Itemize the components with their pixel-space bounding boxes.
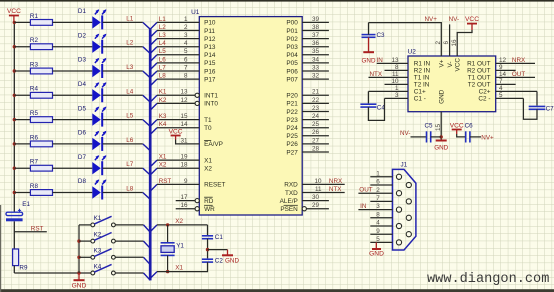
wire pin 6 V- stub [449, 24, 451, 56]
svg-text:K1: K1 [159, 89, 167, 96]
junction VCC rail row 2 [13, 45, 16, 48]
svg-text:L2: L2 [126, 40, 134, 47]
wire K3 to bus [115, 256, 143, 258]
wire/pin 10 (RXD) right of U1 [302, 183, 345, 185]
svg-text:D7: D7 [78, 154, 87, 161]
svg-text:K4: K4 [94, 263, 102, 270]
svg-text:3: 3 [184, 32, 188, 39]
svg-text:T1 IN: T1 IN [414, 75, 430, 82]
bus entry L7 [143, 168, 150, 175]
wire/pin 22 (P21) right of U1 [302, 102, 329, 104]
svg-text:15: 15 [435, 123, 442, 131]
svg-text:13: 13 [180, 89, 188, 96]
wire/pin 38 (P01) right of U1 [302, 30, 329, 32]
svg-text:P04: P04 [286, 52, 298, 59]
wire/pin 2 (L2) left of U1 [150, 31, 199, 38]
bus entry L4 [143, 95, 150, 102]
resistor R4 [30, 86, 53, 99]
wire VCC rail to R6 [14, 143, 30, 145]
electrolytic capacitor E1 [6, 201, 30, 221]
junction bottom rail / switch rail [77, 271, 80, 274]
svg-text:P01: P01 [286, 28, 298, 35]
wire K2 to bus [115, 240, 143, 242]
wire/pin 8 (L8) left of U1 [150, 79, 199, 86]
wire/pin 1 (C1+) left of U2 [368, 90, 408, 92]
switch K4 [91, 263, 115, 275]
power symbol GND (U2) [434, 141, 448, 152]
power symbol VCC (top-left) [7, 8, 21, 22]
svg-text:6: 6 [184, 56, 188, 63]
junction VCC rail row 3 [13, 69, 16, 72]
svg-text:NV+: NV+ [425, 16, 438, 23]
wire/pin 3 (C1 -) left of U2 [385, 97, 409, 99]
svg-text:36: 36 [312, 40, 320, 47]
junction switch rail K2 [77, 239, 80, 242]
svg-text:32: 32 [312, 73, 320, 80]
svg-text:33: 33 [312, 64, 320, 71]
svg-text:18: 18 [180, 162, 188, 169]
svg-text:12: 12 [499, 57, 507, 64]
wire D4 cathode to bus [103, 94, 143, 96]
wire to GND (crystal) [208, 249, 228, 251]
wire D8 cathode to bus [103, 192, 143, 194]
LED D8 [78, 178, 107, 199]
bus (vertical trunk) [149, 29, 152, 280]
mcu U1 body [191, 9, 302, 215]
svg-text:D2: D2 [78, 32, 87, 39]
svg-text:L1: L1 [126, 15, 134, 22]
wire R2 to D2 [53, 46, 93, 48]
svg-text:P23: P23 [286, 117, 298, 124]
svg-text:C7: C7 [546, 105, 554, 112]
svg-text:R2 OUT: R2 OUT [467, 68, 491, 75]
svg-text:RXD: RXD [284, 182, 298, 189]
svg-text:7: 7 [376, 195, 380, 202]
svg-text:L6: L6 [159, 56, 167, 63]
svg-text:5: 5 [184, 48, 188, 55]
LED D7 [78, 154, 107, 175]
svg-text:K2: K2 [94, 231, 102, 238]
svg-text:R9: R9 [19, 265, 28, 272]
svg-text:8: 8 [376, 211, 380, 218]
resistor R3 [30, 61, 53, 74]
bus entry L1 [143, 22, 150, 29]
svg-text:L6: L6 [126, 137, 134, 144]
svg-text:37: 37 [312, 32, 320, 39]
svg-text:C6: C6 [465, 123, 474, 130]
LED D2 [78, 32, 107, 53]
svg-text:VCC: VCC [7, 8, 21, 15]
wire D3 cathode to bus [103, 70, 143, 72]
svg-text:R2 IN: R2 IN [414, 68, 431, 75]
wire/pin 32 (P07) right of U1 [302, 78, 329, 80]
svg-text:13: 13 [391, 57, 399, 64]
junction VCC rail row 5 [13, 118, 16, 121]
pin name EA/VP [204, 141, 223, 149]
resistor R7 [30, 159, 53, 172]
svg-text:L3: L3 [126, 64, 134, 71]
svg-text:P21: P21 [286, 101, 298, 108]
wire R8 to D8 [53, 192, 93, 194]
wire/pin 4 (C2+) right of U2 [496, 90, 537, 92]
wire/pin 9 (RESET) left of U1 [150, 184, 199, 191]
svg-text:39: 39 [312, 16, 320, 23]
bus entry L5 [143, 120, 150, 127]
wire/pin 29 (PSEN) right of U1 [302, 207, 329, 211]
svg-text:10: 10 [314, 178, 322, 185]
wire/pin 36 (P03) right of U1 [302, 46, 329, 48]
svg-text:P25: P25 [286, 133, 298, 140]
svg-text:2: 2 [376, 187, 380, 194]
wire rail to K1 [79, 224, 91, 226]
crystal Y1 [161, 243, 185, 256]
svg-text:K3: K3 [159, 113, 167, 120]
svg-text:24: 24 [312, 113, 320, 120]
junction VCC rail row 6 [13, 142, 16, 145]
pin hole 6 (J1) [406, 182, 411, 187]
connector J1 body [393, 162, 416, 250]
wire/pin 27 (P26) right of U1 [302, 143, 329, 145]
wire/pin 21 (P20) right of U1 [302, 94, 329, 96]
svg-text:27: 27 [312, 137, 320, 144]
svg-text:R1 OUT: R1 OUT [467, 61, 491, 68]
svg-text:P13: P13 [204, 44, 216, 51]
svg-text:C1: C1 [215, 234, 224, 241]
junction VCC rail row 8 [13, 191, 16, 194]
wire/pin 25 (P24) right of U1 [302, 127, 329, 129]
svg-text:P02: P02 [286, 36, 298, 43]
wire/pin 3 of J1 [358, 209, 392, 211]
svg-text:U1: U1 [191, 9, 200, 16]
svg-text:J1: J1 [401, 162, 408, 169]
svg-text:P20: P20 [286, 93, 298, 100]
svg-text:OUT: OUT [512, 71, 525, 78]
wire Y1 bottom lead [167, 255, 169, 271]
pin name WR (overline) [204, 205, 215, 213]
svg-text:23: 23 [312, 105, 320, 112]
svg-text:GND: GND [439, 89, 446, 104]
svg-text:11: 11 [392, 71, 399, 78]
svg-text:5: 5 [376, 236, 380, 243]
wire/pin 11 (TXD) right of U1 [302, 192, 345, 194]
svg-text:VCC: VCC [465, 16, 479, 23]
power symbol GND (J1) [369, 242, 384, 257]
wire/pin 2 of J1 [358, 192, 392, 194]
svg-text:16: 16 [180, 202, 188, 209]
switch K2 [91, 231, 115, 243]
svg-text:25: 25 [312, 121, 320, 128]
wire pin1 to C4 [367, 91, 369, 103]
svg-text:OUT: OUT [359, 186, 372, 193]
svg-text:PSEN: PSEN [280, 206, 298, 213]
wire C3 top lead [368, 23, 370, 35]
svg-text:R3: R3 [30, 61, 39, 68]
svg-text:7: 7 [184, 64, 188, 71]
wire C4 to pin3 [368, 98, 384, 120]
svg-text:GND: GND [225, 258, 239, 265]
pin hole 9 (J1) [406, 232, 411, 237]
svg-text:P26: P26 [286, 141, 298, 148]
svg-text:21: 21 [312, 89, 320, 96]
wire bottom rail (GND row) [14, 272, 92, 274]
wire VCC rail to R1 [14, 21, 30, 23]
wire/pin 17 (RD) [176, 199, 200, 203]
svg-text:L3: L3 [159, 32, 167, 39]
pin hole 7 (J1) [406, 199, 411, 204]
svg-text:P14: P14 [204, 52, 216, 59]
svg-text:X1: X1 [159, 154, 167, 161]
svg-text:R5: R5 [30, 110, 39, 117]
svg-text:9: 9 [376, 228, 380, 235]
svg-text:29: 29 [312, 202, 320, 209]
svg-text:14: 14 [180, 121, 188, 128]
svg-text:X1: X1 [175, 265, 183, 272]
bus entry L3 [143, 71, 150, 78]
wire/pin 9 of J1 [370, 233, 392, 235]
power symbol GND (C3) [362, 52, 376, 64]
wire/pin 10 (T2 IN) left of U2 [385, 83, 409, 85]
wire X2 row [157, 224, 208, 226]
wire rail to K3 [79, 256, 91, 258]
wire/pin 34 (P05) right of U1 [302, 62, 329, 64]
wire R3 to D3 [53, 70, 93, 72]
svg-text:P11: P11 [204, 28, 215, 35]
svg-text:C1+: C1+ [414, 89, 426, 96]
svg-text:35: 35 [312, 48, 320, 55]
wire/pin 15 (T1) left of U1 [150, 120, 199, 127]
svg-text:RST: RST [31, 225, 44, 232]
wire pin4 to C7 [536, 91, 538, 105]
resistor R9 [13, 249, 28, 272]
wire NV- to C5 [411, 136, 427, 138]
LED D1 [78, 8, 107, 29]
ic U2 body [408, 49, 496, 112]
svg-text:8: 8 [184, 73, 188, 80]
svg-text:C2: C2 [215, 258, 224, 265]
wire/pin 14 (T0) left of U1 [150, 128, 199, 135]
wire/pin 26 (P25) right of U1 [302, 135, 329, 137]
svg-text:P03: P03 [286, 44, 298, 51]
power symbol GND (crystal) [222, 250, 239, 265]
pin hole 3 (J1) [396, 207, 401, 212]
svg-text:4: 4 [499, 85, 503, 92]
svg-text:L8: L8 [126, 186, 134, 193]
wire/pin 12 (INT0) left of U1 [150, 101, 199, 110]
svg-text:VCC: VCC [450, 123, 464, 130]
svg-text:9: 9 [499, 64, 503, 71]
svg-text:NTX: NTX [329, 186, 342, 193]
wire/pin 1 of J1 [370, 176, 392, 178]
wire/pin 37 (P02) right of U1 [302, 38, 329, 40]
svg-text:C3: C3 [377, 32, 386, 39]
svg-text:L7: L7 [159, 64, 167, 71]
power symbol VCC (EA/VP) [169, 128, 183, 139]
wire/pin 5 of J1 [370, 241, 392, 243]
capacitor C2 [202, 258, 223, 265]
svg-text:P06: P06 [286, 68, 298, 75]
svg-text:IN: IN [377, 57, 384, 64]
page top border [0, 0, 554, 2]
svg-text:K2: K2 [159, 97, 167, 104]
svg-text:C2+: C2+ [479, 89, 491, 96]
svg-text:1: 1 [184, 16, 188, 23]
wire R5 to D5 [53, 119, 93, 121]
svg-text:19: 19 [180, 154, 188, 161]
wire D7 cathode to bus [103, 167, 143, 169]
capacitor C4 [360, 104, 385, 111]
svg-text:R1 IN: R1 IN [414, 61, 431, 68]
svg-text:T2 OUT: T2 OUT [468, 82, 491, 89]
svg-text:VCC: VCC [455, 58, 462, 72]
svg-text:L4: L4 [126, 88, 134, 95]
svg-text:L5: L5 [159, 48, 167, 55]
svg-text:30: 30 [312, 194, 320, 201]
svg-text:L1: L1 [159, 16, 167, 23]
wire/pin 19 (X1) left of U1 [150, 160, 199, 167]
svg-text:D6: D6 [78, 130, 87, 137]
wire R7 to D7 [53, 167, 93, 169]
svg-text:14: 14 [499, 71, 507, 78]
svg-text:3: 3 [395, 92, 399, 99]
wire/pin 7 (T2 OUT) right of U2 [496, 83, 516, 85]
svg-text:ALE/P: ALE/P [280, 198, 298, 205]
svg-text:7: 7 [499, 78, 503, 85]
svg-text:RST: RST [159, 178, 172, 185]
svg-text:5: 5 [499, 92, 503, 99]
svg-text:T0: T0 [204, 125, 212, 132]
wire VCC rail to R3 [14, 70, 30, 72]
svg-text:R6: R6 [30, 134, 39, 141]
bus entry X2 (bottom) [150, 225, 157, 232]
svg-text:L8: L8 [159, 73, 167, 80]
wire/pin 39 (P00) right of U1 [302, 21, 329, 23]
svg-text:VCC: VCC [169, 128, 183, 135]
wire VCC rail to R5 [14, 119, 30, 121]
wire K4 to bus [115, 272, 143, 274]
wire VCC to C6 [457, 134, 466, 137]
svg-text:11: 11 [315, 186, 322, 193]
resistor R6 [30, 134, 53, 147]
wire pin 31 EA/VP [176, 140, 200, 144]
bus entry K1 [144, 225, 151, 232]
pin name RD (overline) [204, 197, 214, 205]
wire/pin 14 (T1 OUT) right of U2 [496, 76, 535, 78]
svg-text:P16: P16 [204, 68, 216, 75]
wire rail E1 to R9 [13, 221, 15, 249]
wire Y1 top lead [167, 225, 169, 242]
svg-text:1: 1 [376, 170, 380, 177]
svg-text:P07: P07 [286, 76, 298, 83]
svg-text:3: 3 [376, 203, 380, 210]
svg-text:X2: X2 [159, 162, 167, 169]
svg-text:C5: C5 [425, 123, 434, 130]
wire R1 to D1 [53, 21, 93, 23]
wire/pin 1 (L1) left of U1 [150, 22, 199, 29]
wire pin 15 GND stub [440, 112, 442, 141]
switch K1 [91, 215, 115, 227]
wire/pin 7 of J1 [370, 200, 392, 202]
capacitor C3 [362, 32, 386, 39]
wire/pin 8 of J1 [370, 217, 392, 219]
wire/pin 3 (L3) left of U1 [150, 39, 199, 46]
svg-text:12: 12 [180, 97, 188, 104]
wire/pin 13 (INT1) left of U1 [150, 93, 199, 102]
wire C1 top lead [207, 225, 209, 235]
pin hole 2 (J1) [396, 191, 401, 196]
svg-text:NV-: NV- [449, 16, 460, 23]
wire switch rail [78, 225, 80, 273]
wire pin 2 V+ / NV+ net [369, 23, 442, 56]
svg-text:P12: P12 [204, 36, 216, 43]
wire/pin 30 (ALE/P) right of U1 [302, 200, 329, 202]
wire K1 to bus [115, 224, 143, 226]
svg-text:16: 16 [451, 39, 458, 47]
svg-text:GND: GND [362, 57, 376, 64]
svg-text:R1: R1 [30, 13, 39, 20]
svg-text:4: 4 [184, 40, 188, 47]
LED D4 [78, 81, 107, 102]
resistor R5 [30, 110, 53, 123]
pin hole 5 (J1) [396, 240, 401, 245]
svg-text:22: 22 [312, 97, 320, 104]
svg-text:NV+: NV+ [481, 135, 494, 142]
capacitor C5 [425, 123, 434, 143]
svg-text:L4: L4 [159, 40, 167, 47]
switch K3 [91, 248, 115, 260]
wire R6 to D6 [53, 143, 93, 145]
resistor R2 [30, 37, 53, 50]
wire/pin 35 (P04) right of U1 [302, 54, 329, 56]
svg-text:15: 15 [180, 113, 188, 120]
svg-text:D8: D8 [78, 178, 87, 185]
bus entry K2 [144, 241, 151, 248]
svg-text:INT0: INT0 [204, 101, 218, 108]
svg-text:RESET: RESET [204, 182, 225, 189]
junction VCC rail row 4 [13, 94, 16, 97]
svg-text:K4: K4 [159, 121, 167, 128]
wire/pin 24 (P23) right of U1 [302, 119, 329, 121]
svg-text:8: 8 [395, 64, 399, 71]
junction C1/C2/GND [206, 248, 209, 251]
wire/pin 5 (C2 -) right of U2 [496, 97, 524, 99]
svg-text:P27: P27 [286, 149, 298, 156]
wire/pin 8 (R2 IN) left of U2 [385, 69, 409, 71]
svg-text:E1: E1 [22, 201, 30, 208]
svg-text:38: 38 [312, 24, 320, 31]
svg-text:EA/VP: EA/VP [204, 141, 223, 148]
page left edge [0, 205, 1, 292]
svg-text:1: 1 [395, 85, 399, 92]
wire R9 to bottom rail [13, 266, 15, 273]
svg-text:GND: GND [369, 251, 384, 258]
svg-text:D4: D4 [78, 81, 87, 88]
svg-text:V+: V+ [439, 59, 446, 67]
svg-text:C2 -: C2 - [478, 96, 490, 103]
svg-text:P15: P15 [204, 60, 216, 67]
svg-text:R7: R7 [30, 159, 39, 166]
junction VCC rail row 1 [13, 21, 16, 24]
pin hole 1 (J1) [396, 174, 401, 179]
svg-text:P10: P10 [204, 20, 216, 27]
wire/pin 18 (X2) left of U1 [150, 168, 199, 175]
capacitor C6 [465, 123, 474, 143]
wire/pin 33 (P06) right of U1 [302, 70, 329, 72]
svg-text:R2: R2 [30, 37, 39, 44]
wire/pin 5 (L5) left of U1 [150, 55, 199, 62]
wire C3 bottom lead [368, 37, 370, 52]
svg-text:X2: X2 [204, 166, 212, 173]
svg-text:D1: D1 [78, 8, 87, 15]
